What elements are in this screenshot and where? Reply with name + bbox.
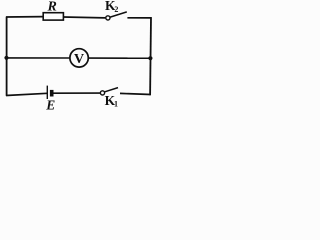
switch K2 blade <box>110 12 127 17</box>
wire: battery to switch K1 <box>54 92 101 94</box>
switch K2 pivot circle <box>106 16 110 20</box>
wire: switch K1 to bottom-right corner <box>120 93 151 94</box>
wire: resistor to switch K2 <box>63 16 105 19</box>
battery E short thick plate <box>50 90 54 97</box>
wire: bottom-left corner to battery <box>6 93 47 95</box>
wire: top, left corner to resistor <box>6 16 44 18</box>
svg-text:R: R <box>47 0 57 15</box>
svg-text:1: 1 <box>114 100 118 109</box>
wire: right vertical <box>149 17 152 95</box>
battery E long plate <box>46 86 48 99</box>
svg-text:2: 2 <box>114 5 118 14</box>
wire: left vertical <box>6 17 8 96</box>
switch K1 blade <box>105 88 118 92</box>
node: left junction dot <box>4 56 8 60</box>
resistor R (box) <box>43 13 63 20</box>
switch K1 pivot circle <box>100 91 104 95</box>
svg-text:V: V <box>74 52 84 67</box>
wire: switch K2 to top-right corner <box>127 17 151 19</box>
wire: middle left to voltmeter <box>7 57 71 59</box>
wire: voltmeter to right junction <box>88 57 150 59</box>
op-amp? no: voltmeter V circle <box>70 49 88 67</box>
node: right junction dot <box>148 56 152 60</box>
svg-text:E: E <box>45 98 55 113</box>
